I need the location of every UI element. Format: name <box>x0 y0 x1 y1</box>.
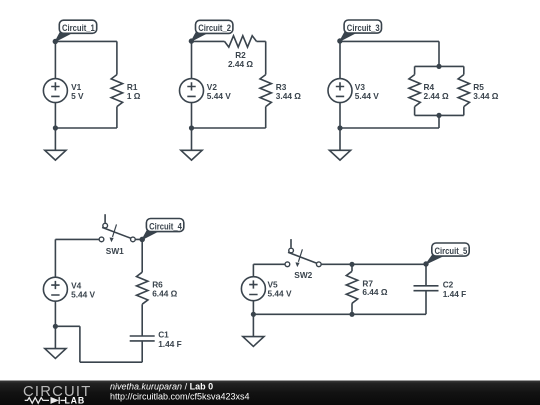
svg-text:5.44 V: 5.44 V <box>71 289 95 299</box>
svg-text:5.44 V: 5.44 V <box>207 91 231 101</box>
svg-text:C2: C2 <box>443 279 454 289</box>
svg-text:3.44 Ω: 3.44 Ω <box>276 91 301 101</box>
svg-text:Circuit_2: Circuit_2 <box>198 23 231 33</box>
svg-text:1.44 F: 1.44 F <box>443 289 467 299</box>
svg-text:Circuit_1: Circuit_1 <box>62 23 95 33</box>
svg-text:2.44 Ω: 2.44 Ω <box>228 59 253 69</box>
svg-text:LAB: LAB <box>65 395 85 405</box>
svg-text:Circuit_5: Circuit_5 <box>435 246 468 256</box>
svg-text:1.44 F: 1.44 F <box>158 339 182 349</box>
svg-text:1 Ω: 1 Ω <box>127 91 141 101</box>
svg-text:6.44 Ω: 6.44 Ω <box>362 287 387 297</box>
svg-text:Circuit_4: Circuit_4 <box>149 221 182 231</box>
svg-text:http://circuitlab.com/cf5ksva4: http://circuitlab.com/cf5ksva423xs4 <box>110 392 250 402</box>
svg-text:5.44 V: 5.44 V <box>355 91 379 101</box>
svg-text:C1: C1 <box>158 330 169 340</box>
svg-text:5.44 V: 5.44 V <box>268 288 292 298</box>
svg-text:nivetha.kuruparan / Lab 0: nivetha.kuruparan / Lab 0 <box>110 381 213 391</box>
svg-text:SW2: SW2 <box>294 270 312 280</box>
svg-text:6.44 Ω: 6.44 Ω <box>152 288 177 298</box>
svg-text:2.44 Ω: 2.44 Ω <box>424 91 449 101</box>
svg-text:3.44 Ω: 3.44 Ω <box>473 91 498 101</box>
svg-text:SW1: SW1 <box>106 246 124 256</box>
svg-text:5 V: 5 V <box>71 91 84 101</box>
svg-text:Circuit_3: Circuit_3 <box>347 23 380 33</box>
